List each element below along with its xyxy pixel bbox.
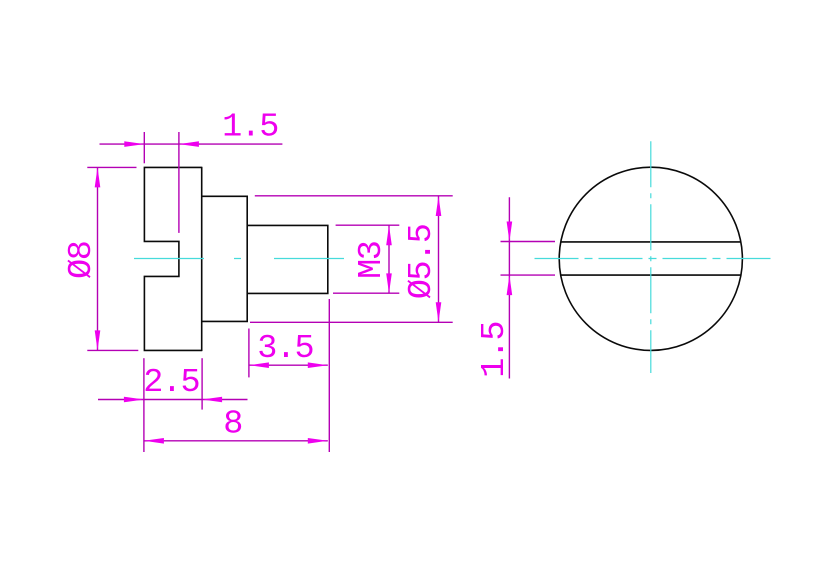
dimension Ø5.5 shoulder: top arrow [436, 196, 442, 216]
dimension 3.5 shaft length: dimension line [249, 364, 328, 366]
dimension Ø5.5 shoulder: bottom extension line [250, 321, 453, 323]
dimension 1.5 slot width: top arrow [507, 222, 513, 242]
dimension 1.5 slot depth: extension line at head left [143, 132, 145, 163]
svg-text:Ø8: Ø8 [63, 242, 101, 279]
svg-text:3.5: 3.5 [257, 330, 313, 368]
dimension M3 thread: bottom arrow [386, 273, 392, 293]
dimension 8 overall length: dimension line [144, 440, 328, 442]
screw head right edge [201, 167, 203, 351]
slot bottom chord line [561, 274, 741, 276]
dimension 8 overall length: right arrow [308, 438, 328, 444]
horizontal centerline end view [535, 258, 772, 260]
dimension 1.5 slot depth: right arrow [179, 141, 199, 147]
dimension 1.5 slot width: top extension line [501, 241, 556, 243]
svg-text:1.5: 1.5 [476, 322, 514, 378]
dimension 1.5 slot depth: dimension line [100, 143, 283, 145]
dimension 1.5 slot width: bottom arrow [507, 275, 513, 295]
dimension Ø5.5 shoulder: top extension line [255, 195, 453, 197]
dimension 1.5 slot width: bottom extension line [501, 274, 556, 276]
dimension Ø8: top arrow [95, 167, 101, 187]
dimension M3 thread: bottom extension line [333, 292, 399, 294]
dimension 2.5 head thickness: left extension line [143, 358, 145, 452]
dimension Ø8: top extension line [87, 166, 136, 168]
svg-text:2.5: 2.5 [143, 364, 199, 402]
dimension Ø8: bottom arrow [95, 330, 101, 350]
dimension 2.5 head thickness: right arrow [202, 397, 222, 403]
vertical centerline end view [650, 141, 652, 373]
dimension 1.5 slot width: dimension line [508, 197, 510, 378]
dimension 3.5 shaft length: right arrow [308, 362, 328, 368]
shaft outline [247, 225, 328, 293]
dimension M3 thread: dimension line [388, 225, 390, 293]
dimension Ø8: bottom extension line [87, 349, 138, 351]
end view circle [559, 167, 742, 350]
dimension 1.5 slot depth: left arrow [124, 141, 144, 147]
dimension 3.5 shaft length: left extension line [248, 329, 250, 378]
dimension Ø5.5 shoulder: bottom arrow [436, 302, 442, 322]
dimension 2.5 head thickness: right extension line [201, 358, 203, 409]
svg-text:M3: M3 [353, 242, 391, 279]
svg-text:1.5: 1.5 [222, 109, 278, 147]
dimension 2.5 head thickness: dimension line [98, 399, 248, 401]
dimension 2.5 head thickness: left arrow [124, 397, 144, 403]
dimension 8 overall length: right extension line [328, 299, 330, 452]
screw head side-view outline with slot notch [144, 167, 201, 350]
svg-text:8: 8 [223, 406, 242, 444]
dimension M3 thread: top extension line [336, 224, 400, 226]
centerline left view [134, 258, 348, 260]
dimension 8 overall length: left arrow [144, 438, 164, 444]
dimension 1.5 slot depth: extension line at slot bottom [178, 132, 180, 233]
dimension 3.5 shaft length: left arrow [249, 362, 269, 368]
slot top chord line [561, 241, 741, 243]
dimension Ø5.5 shoulder: dimension line [438, 196, 440, 322]
dimension M3 thread: top arrow [386, 225, 392, 245]
svg-text:Ø5.5: Ø5.5 [403, 225, 441, 299]
dimension Ø8: dimension line [97, 167, 99, 350]
shoulder outline [202, 196, 248, 321]
